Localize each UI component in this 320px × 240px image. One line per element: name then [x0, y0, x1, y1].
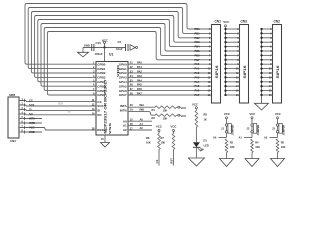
- svg-text:PA2: PA2: [137, 70, 142, 74]
- wire GPA6 (chip pin 27) to CN1 pin 15: [128, 90, 212, 92]
- wire GPB4 (chip pin 5) to CN1 pin 5: [38, 20, 212, 82]
- wire CN3 VCC bus: [225, 27, 227, 95]
- ground J3 branch: [271, 159, 285, 167]
- svg-text:VDD: VDD: [116, 64, 120, 77]
- svg-text:D1: D1: [204, 139, 208, 143]
- svg-text:PA6: PA6: [137, 87, 142, 91]
- svg-text:R3: R3: [230, 141, 234, 145]
- svg-text:PA5: PA5: [137, 83, 142, 87]
- wire A0 to J1: [219, 133, 227, 138]
- svg-text:GPB3: GPB3: [97, 76, 106, 80]
- LED D1: [193, 142, 204, 151]
- svg-text:CN3: CN3: [241, 19, 248, 23]
- svg-text:R7: R7: [161, 136, 165, 140]
- svg-text:CS: CS: [97, 100, 101, 104]
- jumper J3: [276, 124, 282, 134]
- ground top-left: [78, 48, 89, 57]
- jumper J2: [251, 124, 257, 134]
- VCC terminal J1: [224, 112, 230, 124]
- svg-text:100nF: 100nF: [95, 52, 103, 56]
- wire GPA3 (chip pin 24) to CN1 pin 12: [128, 76, 212, 78]
- svg-text:1K: 1K: [204, 118, 207, 122]
- wire CN4 pin 5 net INTA stub: [19, 118, 42, 120]
- ground LED branch: [188, 158, 204, 166]
- svg-text:10K: 10K: [163, 109, 168, 113]
- svg-text:GND: GND: [84, 43, 90, 47]
- svg-text:GPA4: GPA4: [119, 80, 127, 84]
- svg-text:PA0: PA0: [195, 62, 200, 66]
- wire GPB3 (chip pin 4) to CN1 pin 4: [35, 16, 212, 78]
- svg-text:A2: A2: [123, 128, 127, 132]
- svg-text:R1: R1: [152, 108, 156, 112]
- svg-text:CS: CS: [29, 99, 33, 103]
- svg-text:A2: A2: [264, 135, 268, 139]
- svg-text:INA: INA: [140, 103, 145, 107]
- svg-text:VCC: VCC: [249, 112, 255, 116]
- svg-text:PA0: PA0: [137, 61, 142, 65]
- svg-text:SO: SO: [29, 112, 33, 116]
- wire GPA4 (chip pin 25) to CN1 pin 13: [128, 81, 212, 83]
- svg-text:GPA5: GPA5: [119, 84, 127, 88]
- svg-text:PA4: PA4: [137, 78, 142, 82]
- polarity arrow after C2: [130, 45, 135, 51]
- svg-text:INB: INB: [140, 107, 145, 111]
- svg-text:PA7: PA7: [195, 93, 200, 97]
- wire CN4 pin 7 RESET to U1: [19, 128, 96, 131]
- wire D1 to ground: [195, 147, 197, 158]
- svg-text:A1: A1: [140, 122, 144, 126]
- capacitor C2 plates: [126, 44, 129, 51]
- svg-text:JUMPER: JUMPER: [281, 125, 285, 136]
- svg-text:VCC: VCC: [102, 38, 109, 42]
- svg-text:INTB: INTB: [29, 121, 35, 125]
- junction VDD node: [103, 46, 105, 48]
- svg-text:RST: RST: [169, 158, 173, 164]
- wire VSS to ground: [104, 135, 106, 143]
- wire GPB1 (chip pin 2) to CN1 pin 2: [28, 8, 211, 69]
- VCC terminal J2: [249, 112, 255, 124]
- svg-text:INTA: INTA: [29, 117, 35, 121]
- wire R4 to ground: [251, 153, 253, 159]
- svg-text:PA7: PA7: [137, 92, 142, 96]
- svg-text:C10: C10: [96, 41, 102, 45]
- svg-text:C2: C2: [118, 40, 122, 44]
- U1 SPI pin names and RESET: [97, 100, 107, 132]
- svg-text:GPB0: GPB0: [97, 62, 106, 66]
- resistor R7: [172, 134, 175, 150]
- svg-text:SIP16: SIP16: [243, 65, 247, 78]
- node VCC terminal: [103, 41, 105, 47]
- svg-text:SCK: SCK: [58, 103, 63, 106]
- U1 left pin numbers: [92, 61, 95, 131]
- svg-text:GPA6: GPA6: [119, 89, 127, 93]
- svg-text:SCK: SCK: [29, 103, 35, 107]
- svg-text:GPB1: GPB1: [97, 67, 106, 71]
- svg-text:R5: R5: [281, 141, 285, 145]
- svg-text:CN1: CN1: [215, 19, 222, 23]
- svg-text:10K: 10K: [281, 145, 286, 149]
- svg-text:R4: R4: [255, 141, 259, 145]
- wire CN2 GND bus: [261, 29, 263, 103]
- net labels PA0-PA7 near U1: [137, 61, 142, 96]
- svg-text:VCC: VCC: [275, 112, 281, 116]
- ground J1 branch: [220, 159, 234, 167]
- wire GPB6 (chip pin 7) to CN1 pin 7: [44, 28, 211, 91]
- svg-text:VCC: VCC: [171, 124, 177, 128]
- svg-text:VCC: VCC: [29, 126, 35, 130]
- wire CN3 pin stubs: [226, 29, 240, 95]
- wire CN4 pin 6 net INTB stub: [19, 122, 42, 124]
- resistor R2: [155, 114, 177, 117]
- VCC terminal R7: [171, 124, 177, 133]
- wire INTB from U1: [128, 112, 155, 116]
- wire CN2 pin stubs: [262, 29, 273, 95]
- U1 GPB pin names: [97, 62, 106, 97]
- wire GPB0 (chip pin 1) to CN1 pin 1: [25, 4, 212, 65]
- wire A0 stub: [128, 120, 152, 122]
- resistor R6: [158, 134, 161, 150]
- wire R7 to net RST: [173, 150, 175, 166]
- svg-text:CS: CS: [155, 160, 159, 164]
- connector CN2 body: [273, 25, 282, 104]
- connector CN4 body: [8, 97, 19, 138]
- wire A1 to J2: [244, 133, 252, 138]
- svg-text:SIP16: SIP16: [276, 65, 280, 78]
- CN1 pin numbers: [208, 28, 211, 97]
- svg-text:R6: R6: [146, 136, 150, 140]
- wire A1 stub: [128, 125, 152, 127]
- svg-text:10K: 10K: [161, 141, 166, 145]
- svg-text:PB3: PB3: [195, 40, 201, 44]
- op-amp U1 MCP23S17 IC body: [96, 62, 128, 136]
- wire INTA from U1: [128, 106, 155, 108]
- svg-text:LED: LED: [204, 143, 209, 147]
- wire A2 stub: [128, 129, 152, 131]
- wire GPB7 (chip pin 8) to CN1 pin 8: [47, 32, 211, 96]
- svg-text:GND: GND: [29, 130, 35, 134]
- svg-text:PB6: PB6: [195, 53, 201, 57]
- svg-text:A1: A1: [239, 135, 243, 139]
- svg-text:SI: SI: [29, 108, 32, 112]
- svg-text:VCC: VCC: [223, 20, 230, 24]
- ground CN2 bus: [255, 103, 269, 110]
- wire R6 to net CS: [158, 150, 160, 166]
- svg-text:10K: 10K: [163, 117, 168, 121]
- wire CN4 pin 3 net SI to U1: [19, 109, 96, 112]
- svg-text:PB4: PB4: [195, 45, 201, 49]
- svg-text:VCC: VCC: [156, 124, 162, 128]
- jumper J1: [225, 124, 231, 134]
- svg-text:VCC: VCC: [224, 112, 230, 116]
- svg-text:VSS: VSS: [108, 123, 112, 134]
- svg-text:10K: 10K: [146, 141, 151, 145]
- wire VDD to chip: [104, 48, 106, 62]
- wire CN4 pin 2 net SCK to U1: [19, 105, 96, 106]
- resistor R4: [251, 139, 254, 153]
- VCC terminal R2: [177, 114, 187, 118]
- VCC terminal R6: [156, 124, 162, 133]
- svg-text:R2: R2: [152, 116, 156, 120]
- svg-text:VCC: VCC: [180, 114, 186, 118]
- resistor R5: [276, 139, 279, 153]
- svg-text:PA3: PA3: [195, 75, 200, 79]
- resistor R8: [195, 111, 198, 128]
- wire GPA0 (chip pin 21) to CN1 pin 9: [128, 63, 212, 65]
- wire CN4 pin 1 net CS to U1: [19, 101, 96, 102]
- junction dots CN3 bus: [224, 28, 226, 96]
- connector CN3 body: [240, 25, 249, 104]
- svg-text:R8: R8: [204, 113, 208, 117]
- svg-text:JUMPER: JUMPER: [230, 125, 234, 136]
- svg-text:10K: 10K: [230, 145, 235, 149]
- connector CN1 body: [212, 25, 221, 104]
- svg-text:GPA7: GPA7: [119, 93, 127, 97]
- svg-text:PB7: PB7: [195, 58, 201, 62]
- wire CN4 pin 4 net SO to U1: [19, 113, 96, 116]
- wire GPB2 (chip pin 3) to CN1 pin 3: [31, 12, 211, 74]
- svg-text:INTB: INTB: [120, 108, 128, 112]
- svg-text:PA5: PA5: [195, 84, 200, 88]
- svg-text:A1: A1: [123, 124, 127, 128]
- CN3 pin numbers: [236, 28, 239, 97]
- svg-text:10uF: 10uF: [116, 47, 123, 51]
- svg-text:PB1: PB1: [195, 31, 201, 35]
- svg-text:PA1: PA1: [137, 65, 142, 69]
- VCC terminal R1: [177, 106, 187, 110]
- wire GPB5 (chip pin 6) to CN1 pin 6: [41, 24, 212, 87]
- wire R3 to ground: [226, 153, 228, 159]
- svg-text:PA6: PA6: [195, 89, 200, 93]
- svg-text:PB0: PB0: [195, 27, 201, 31]
- ground J2 branch: [245, 159, 259, 167]
- wire GPA7 (chip pin 28) to CN1 pin 16: [128, 94, 212, 96]
- svg-text:MCP23S17 OR MCP23017: MCP23S17 OR MCP23017: [103, 79, 107, 133]
- svg-text:U1: U1: [109, 53, 113, 57]
- terminal circle after C2: [136, 47, 138, 49]
- svg-text:PB2: PB2: [195, 36, 201, 40]
- VCC terminal J3: [275, 112, 281, 124]
- CN4 pin ticks and numbers: [22, 99, 25, 134]
- svg-text:CN4: CN4: [10, 139, 16, 143]
- svg-text:INTA: INTA: [120, 104, 128, 108]
- svg-text:SI: SI: [68, 110, 71, 113]
- CN4 net name labels: [29, 99, 35, 135]
- svg-text:SO: SO: [97, 113, 102, 117]
- svg-text:VCC: VCC: [180, 106, 186, 110]
- CN1 net labels PB0-PB7 PA0-PA7: [195, 27, 201, 97]
- svg-text:SIP16: SIP16: [215, 65, 219, 78]
- svg-text:PA1: PA1: [195, 67, 200, 71]
- resistor R1: [155, 106, 177, 109]
- svg-text:SI: SI: [97, 109, 100, 113]
- wire GPA1 (chip pin 22) to CN1 pin 10: [128, 68, 212, 70]
- svg-text:A0: A0: [140, 117, 144, 121]
- wire CN4 pin 8 net VCC stub: [19, 131, 42, 133]
- CN2 pin numbers: [269, 28, 272, 97]
- capacitor C10 plates: [92, 44, 94, 51]
- VCC terminal R8: [192, 102, 198, 110]
- VCC terminal for CN3 bus: [223, 20, 230, 27]
- svg-text:10K: 10K: [255, 145, 260, 149]
- svg-text:JUMPER: JUMPER: [256, 125, 260, 136]
- svg-text:A2: A2: [140, 126, 144, 130]
- svg-text:VCC: VCC: [192, 102, 198, 106]
- wire bypass rail: [83, 47, 126, 49]
- svg-text:SIP8: SIP8: [9, 93, 16, 97]
- svg-text:CN2: CN2: [274, 19, 281, 23]
- svg-text:PA4: PA4: [195, 80, 200, 84]
- wire A2 to J3: [270, 133, 278, 138]
- junction dots CN2 bus: [260, 28, 262, 96]
- svg-text:PA3: PA3: [137, 74, 142, 78]
- wire R8 to D1: [195, 127, 197, 142]
- svg-text:PB5: PB5: [195, 49, 201, 53]
- wire GPA2 (chip pin 23) to CN1 pin 11: [128, 72, 212, 74]
- resistor R3: [225, 139, 228, 153]
- svg-text:A0: A0: [213, 135, 217, 139]
- wire R5 to ground: [277, 153, 279, 159]
- svg-text:PA2: PA2: [195, 71, 200, 75]
- wire GPA5 (chip pin 26) to CN1 pin 14: [128, 85, 212, 87]
- U1 GPA INTA INTB A0-A2 pin names: [119, 62, 128, 132]
- ground under U1: [101, 143, 110, 148]
- svg-text:GPB2: GPB2: [97, 71, 106, 75]
- svg-text:A0: A0: [123, 119, 127, 123]
- U1 right pin numbers: [130, 61, 133, 131]
